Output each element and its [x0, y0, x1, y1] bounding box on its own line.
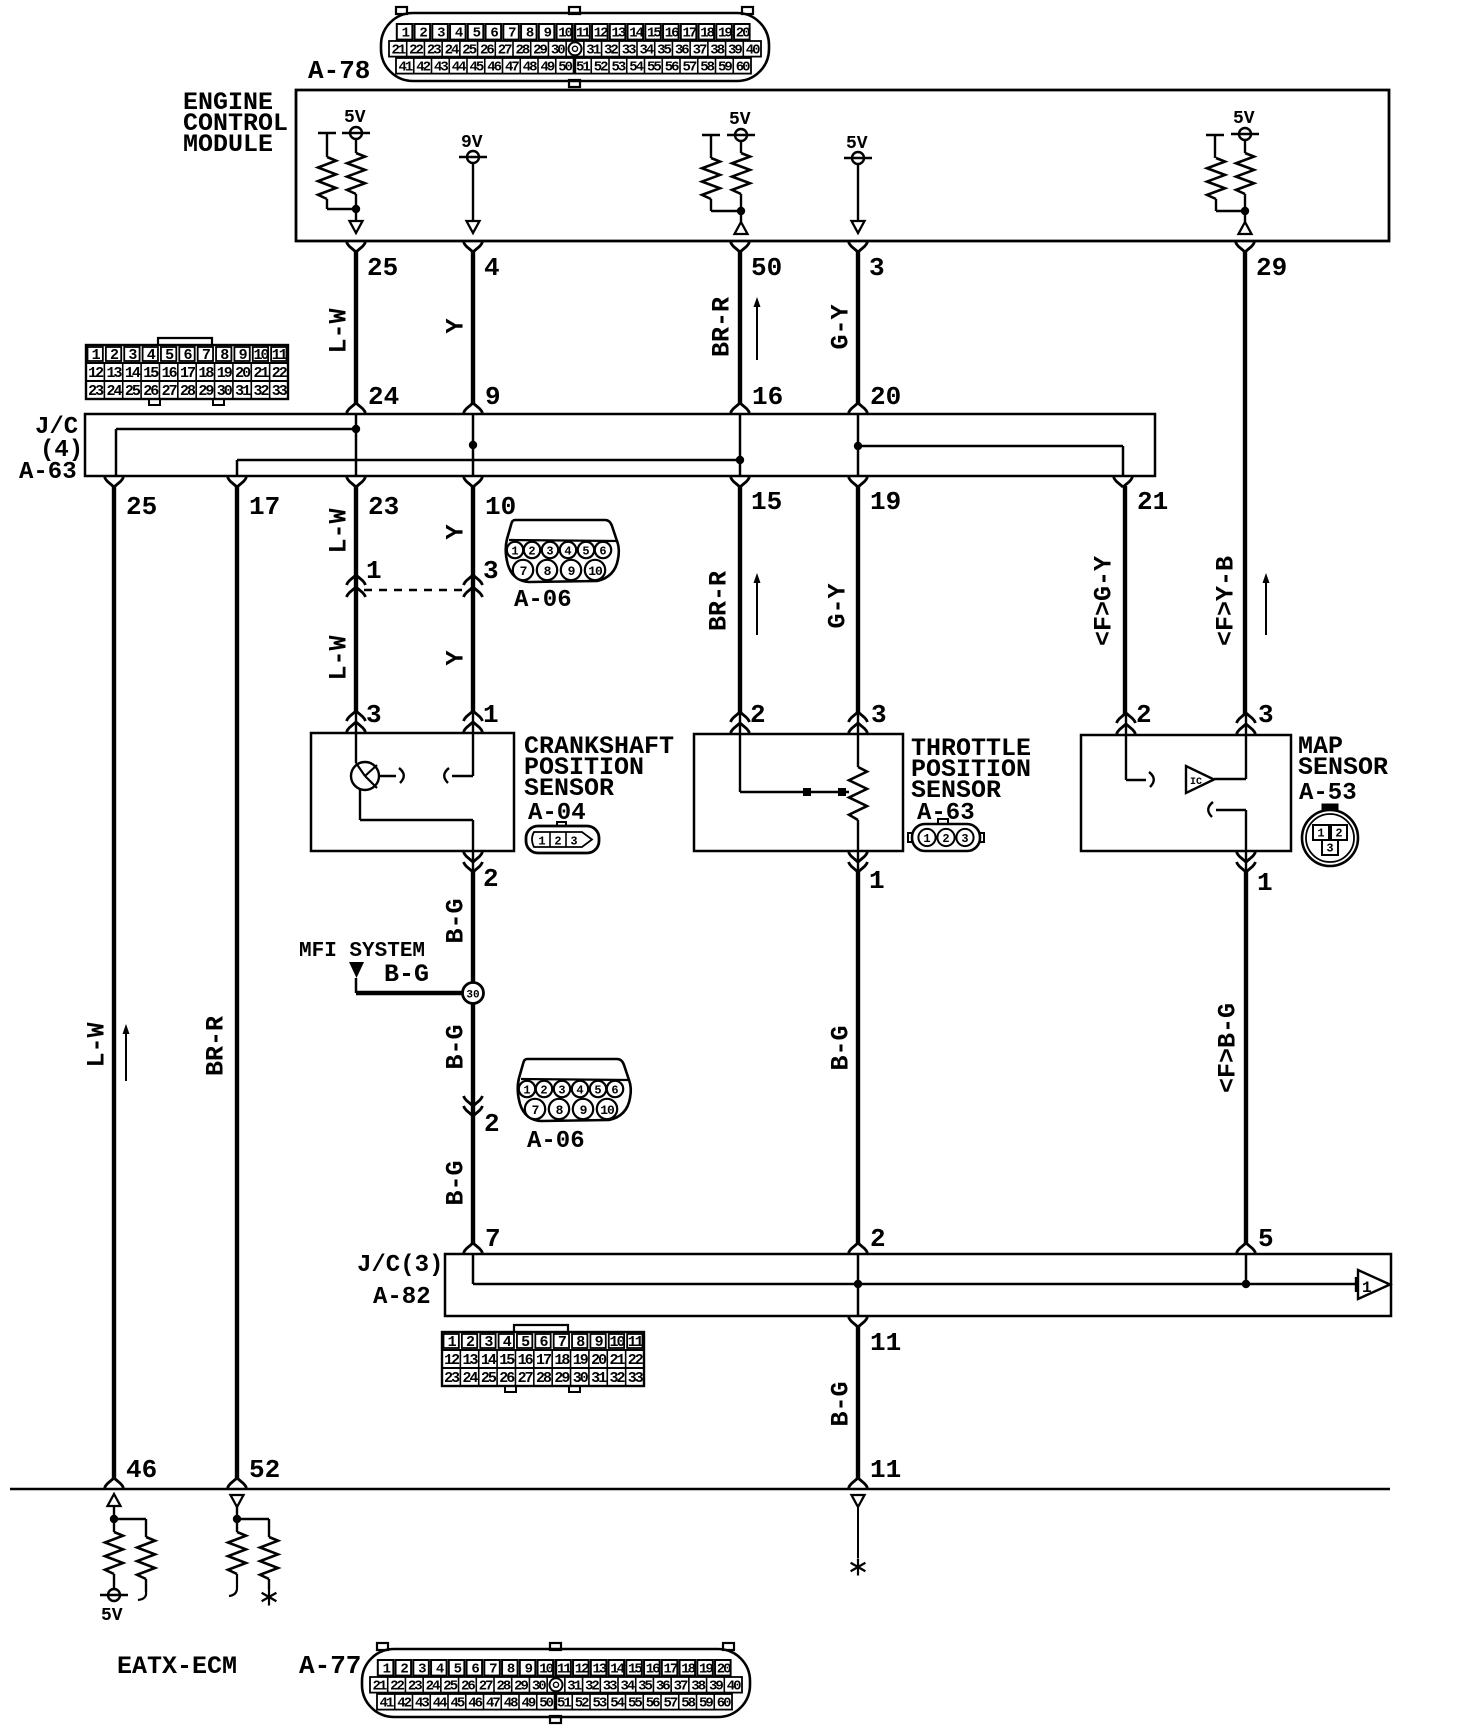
MFI branch wire B-G — [356, 978, 463, 993]
svg-text:34: 34 — [620, 1679, 634, 1695]
svg-text:53: 53 — [592, 1696, 606, 1712]
svg-text:3: 3 — [483, 556, 499, 586]
svg-text:18: 18 — [700, 26, 714, 42]
svg-text:17: 17 — [682, 26, 696, 42]
svg-text:47: 47 — [486, 1696, 500, 1712]
MAP entry pin 2 connector forks — [1117, 713, 1136, 735]
svg-text:9V: 9V — [461, 133, 483, 153]
svg-text:35: 35 — [638, 1679, 652, 1695]
svg-text:51: 51 — [557, 1696, 571, 1712]
svg-text:22: 22 — [409, 43, 423, 59]
wire ECM pin25 resistor bottoms — [327, 194, 356, 221]
JC3 entry fork pin 5 — [1237, 1243, 1256, 1253]
svg-text:58: 58 — [681, 1696, 695, 1712]
connector A-53 icon — [1302, 804, 1358, 866]
label J/C (4) A-63 — [19, 414, 83, 486]
svg-text:13: 13 — [592, 1662, 606, 1678]
svg-text:28: 28 — [536, 1370, 552, 1387]
svg-text:16: 16 — [752, 382, 783, 412]
svg-text:3: 3 — [546, 545, 553, 559]
svg-text:36: 36 — [656, 1679, 670, 1695]
connector A-63 33-pin (junction block) — [86, 338, 288, 405]
svg-text:37: 37 — [693, 43, 707, 59]
crank sensor arm with terminal hook — [379, 768, 404, 783]
svg-text:17: 17 — [536, 1352, 551, 1369]
EATX pin52 branch wire — [237, 1519, 269, 1537]
svg-text:A-06: A-06 — [514, 587, 572, 614]
svg-text:27: 27 — [498, 43, 512, 59]
current arrow ((F)Y-B) — [1265, 581, 1267, 635]
wire G-Y (JC4-19 to throttle pin3) — [856, 486, 860, 714]
throttle entry pin 2 connector forks — [731, 712, 750, 734]
terminal triangle ECM pin4 (open, down) — [467, 221, 480, 233]
wire BR-R long (JC4-17 to EATX-52) — [235, 486, 239, 1480]
MAP entry pin 3 connector forks — [1237, 713, 1256, 735]
svg-text:7: 7 — [532, 1103, 539, 1118]
junction box J/C(3) — [445, 1254, 1391, 1316]
svg-text:2: 2 — [483, 864, 499, 894]
svg-text:J/C(3): J/C(3) — [357, 1252, 443, 1279]
ECM internal 5V supply circle (pin25 group) — [342, 108, 370, 139]
svg-text:1: 1 — [538, 835, 545, 849]
svg-text:2: 2 — [1136, 700, 1152, 730]
svg-text:26: 26 — [461, 1679, 475, 1695]
svg-text:44: 44 — [452, 60, 466, 76]
svg-text:11: 11 — [272, 347, 288, 364]
svg-text:15: 15 — [647, 26, 661, 42]
svg-text:21: 21 — [1137, 487, 1168, 517]
JC3 entry fork pin 2 — [849, 1243, 868, 1253]
svg-text:17: 17 — [663, 1662, 677, 1678]
svg-text:1: 1 — [483, 700, 499, 730]
svg-text:A-63: A-63 — [19, 459, 77, 486]
svg-text:BR-R: BR-R — [708, 297, 737, 357]
svg-text:60: 60 — [717, 1696, 731, 1712]
svg-text:3: 3 — [869, 253, 885, 283]
svg-text:56: 56 — [646, 1696, 660, 1712]
connector A-77 (EATX 60-pin) — [362, 1643, 750, 1723]
svg-text:14: 14 — [125, 365, 141, 382]
svg-text:8: 8 — [556, 1103, 564, 1118]
svg-text:10: 10 — [558, 26, 572, 42]
svg-text:33: 33 — [622, 43, 636, 59]
svg-text:A-06: A-06 — [527, 1128, 585, 1155]
svg-text:4: 4 — [564, 545, 571, 559]
svg-text:7: 7 — [520, 564, 527, 579]
svg-text:55: 55 — [628, 1696, 642, 1712]
svg-text:5V: 5V — [729, 110, 751, 130]
svg-text:34: 34 — [639, 43, 653, 59]
svg-text:32: 32 — [609, 1370, 625, 1387]
svg-text:2: 2 — [750, 700, 766, 730]
svg-text:18: 18 — [554, 1352, 570, 1369]
crank sensor exit pin 2 connector forks — [464, 851, 483, 872]
svg-text:46: 46 — [468, 1696, 482, 1712]
svg-text:11: 11 — [557, 1662, 571, 1678]
svg-text:29: 29 — [514, 1679, 528, 1695]
svg-text:11: 11 — [870, 1328, 901, 1358]
A-06 pin1 fork on L-W wire — [347, 575, 366, 597]
node dot ECM pin50 — [737, 207, 745, 215]
svg-text:2: 2 — [540, 1084, 547, 1098]
svg-text:10: 10 — [485, 492, 516, 522]
MAP internal pin3 wire to IC — [1214, 735, 1246, 779]
resistor R-j (EATX pin52 right) — [260, 1537, 278, 1589]
JC4 internal bus C (pin16 to pin17) — [237, 460, 740, 476]
svg-text:L-W: L-W — [325, 508, 354, 553]
wire L-W (ECM25 to JC4-24) — [354, 251, 358, 405]
svg-text:B-G: B-G — [442, 898, 471, 943]
crankshaft position sensor box A-04 — [311, 733, 514, 851]
JC4 pass-through wire 16-15 — [739, 414, 742, 476]
inline connector A-06 pins 1-3 dashed link — [364, 589, 465, 592]
svg-text:22: 22 — [628, 1352, 644, 1369]
svg-text:21: 21 — [391, 43, 405, 59]
svg-text:46: 46 — [487, 60, 501, 76]
svg-text:3: 3 — [871, 700, 887, 730]
svg-text:10: 10 — [600, 1103, 615, 1118]
svg-text:<F>B-G: <F>B-G — [1214, 1003, 1243, 1093]
svg-text:49: 49 — [521, 1696, 535, 1712]
connector A-78 (ECM 60-pin) — [381, 7, 769, 87]
svg-text:59: 59 — [718, 60, 732, 76]
svg-text:24: 24 — [463, 1370, 479, 1387]
svg-text:60: 60 — [736, 60, 750, 76]
svg-text:43: 43 — [434, 60, 448, 76]
EATX pin52 node dot — [233, 1507, 241, 1523]
svg-text:52: 52 — [249, 1455, 280, 1485]
svg-text:Y: Y — [442, 318, 471, 333]
svg-text:3: 3 — [570, 835, 577, 849]
resistor R-c (ECM pin50 left) — [702, 158, 720, 199]
svg-text:38: 38 — [691, 1679, 705, 1695]
svg-text:25: 25 — [481, 1370, 497, 1387]
connector A-06 icon (lower) — [518, 1059, 631, 1121]
svg-text:7: 7 — [485, 1224, 501, 1254]
ECM pin 29 exit fork — [1236, 242, 1255, 252]
svg-text:2: 2 — [528, 545, 535, 559]
svg-text:G-Y: G-Y — [824, 583, 853, 628]
JC3 pin5 internal stub — [1245, 1254, 1248, 1284]
JC3 pass-through wire 2-11 — [857, 1254, 860, 1316]
resistor R-a (ECM pin25 left) — [318, 157, 336, 199]
ground star (EATX pin11) — [857, 1559, 859, 1576]
label CRANKSHAFT POSITION SENSOR — [524, 732, 674, 803]
svg-text:BR-R: BR-R — [202, 1016, 231, 1076]
svg-text:30: 30 — [532, 1679, 546, 1695]
svg-text:5V: 5V — [1233, 109, 1255, 129]
svg-text:12: 12 — [575, 1662, 589, 1678]
svg-text:28: 28 — [496, 1679, 510, 1695]
svg-text:20: 20 — [235, 365, 251, 382]
svg-text:50: 50 — [539, 1696, 553, 1712]
JC4 exit fork pin 23 — [347, 477, 366, 487]
connector A-06 icon (upper) — [506, 520, 619, 582]
svg-text:A-53: A-53 — [1299, 780, 1357, 807]
svg-text:18: 18 — [198, 365, 214, 382]
JC4 entry fork pin 16 — [731, 403, 750, 413]
current arrow (top BR-R) — [756, 305, 758, 360]
svg-text:19: 19 — [870, 487, 901, 517]
svg-text:51: 51 — [576, 60, 590, 76]
svg-text:33: 33 — [272, 383, 288, 400]
svg-text:12: 12 — [88, 365, 104, 382]
svg-text:6: 6 — [599, 545, 606, 559]
EATX pin46 branch wire — [114, 1519, 146, 1537]
JC4 pass-through wire 24-23 — [355, 414, 358, 476]
JC3 exit fork pin 11 — [849, 1317, 868, 1327]
svg-text:52: 52 — [594, 60, 608, 76]
svg-text:36: 36 — [675, 43, 689, 59]
svg-text:31: 31 — [586, 43, 600, 59]
svg-text:21: 21 — [372, 1679, 386, 1695]
resistor R-e (ECM pin29 left) — [1207, 158, 1225, 199]
svg-text:16: 16 — [646, 1662, 660, 1678]
svg-text:57: 57 — [663, 1696, 677, 1712]
JC4 pass-through wire 9-10 — [472, 414, 475, 476]
svg-text:19: 19 — [699, 1662, 713, 1678]
svg-text:46: 46 — [126, 1455, 157, 1485]
svg-text:25: 25 — [125, 383, 141, 400]
svg-text:B-G: B-G — [442, 1160, 471, 1205]
crank sensor pin1 arm with terminal hook — [444, 733, 473, 783]
current arrow (L-W long) — [125, 1032, 127, 1081]
svg-text:27: 27 — [162, 383, 177, 400]
svg-text:13: 13 — [611, 26, 625, 42]
svg-text:55: 55 — [647, 60, 661, 76]
svg-text:31: 31 — [591, 1370, 607, 1387]
svg-text:15: 15 — [751, 487, 782, 517]
svg-text:21: 21 — [609, 1352, 625, 1369]
svg-text:44: 44 — [433, 1696, 447, 1712]
EATX-ECM boundary rail — [10, 1488, 1390, 1491]
svg-text:EATX-ECM: EATX-ECM — [117, 1652, 237, 1681]
svg-text:B-G: B-G — [827, 1381, 856, 1426]
svg-text:33: 33 — [603, 1679, 617, 1695]
svg-text:15: 15 — [143, 365, 159, 382]
wire B-G (throttle pin1 to JC3-2) — [856, 872, 860, 1245]
svg-text:54: 54 — [610, 1696, 624, 1712]
ECM internal 5V supply circle (pin29 group) — [1231, 109, 1259, 140]
svg-text:3: 3 — [1258, 700, 1274, 730]
crank sensor internal return wire — [360, 788, 473, 851]
svg-text:49: 49 — [540, 60, 554, 76]
svg-text:19: 19 — [573, 1352, 589, 1369]
svg-text:1: 1 — [511, 545, 518, 559]
ECM pin 4 exit fork — [464, 242, 483, 252]
svg-text:20: 20 — [717, 1662, 731, 1678]
wire BR-R (JC4-15 to throttle pin2) — [738, 486, 742, 714]
JC4 junction dot on Y wire — [469, 441, 477, 449]
svg-text:14: 14 — [481, 1352, 497, 1369]
EATX pin11 terminal triangle (open, down) — [852, 1495, 865, 1507]
svg-text:3: 3 — [366, 700, 382, 730]
svg-text:SENSOR: SENSOR — [524, 774, 614, 803]
wire ECM pin29 resistor bottoms — [1216, 194, 1245, 222]
svg-text:3: 3 — [1326, 842, 1333, 856]
svg-text:A-78: A-78 — [308, 56, 370, 86]
svg-text:10: 10 — [539, 1662, 553, 1678]
svg-text:14: 14 — [629, 26, 643, 42]
svg-text:13: 13 — [463, 1352, 479, 1369]
svg-text:50: 50 — [751, 253, 782, 283]
ECM internal stub bracket (pin29 group) — [1206, 135, 1224, 158]
EATX pin46 node dot — [110, 1506, 118, 1523]
svg-text:G-Y: G-Y — [827, 304, 856, 349]
svg-text:29: 29 — [554, 1370, 570, 1387]
A-06 pin3 fork on Y wire — [464, 575, 483, 597]
JC4 internal bus D (pin20 to pin21) — [858, 446, 1123, 476]
svg-text:15: 15 — [499, 1352, 515, 1369]
MAP internal output arm with hook — [1208, 802, 1246, 851]
svg-text:16: 16 — [518, 1352, 534, 1369]
svg-text:45: 45 — [450, 1696, 464, 1712]
svg-text:17: 17 — [180, 365, 195, 382]
svg-text:4: 4 — [576, 1084, 583, 1098]
JC4 exit fork pin 25 — [105, 477, 124, 487]
svg-text:39: 39 — [709, 1679, 723, 1695]
svg-text:35: 35 — [657, 43, 671, 59]
svg-text:B-G: B-G — [384, 960, 429, 989]
svg-text:29: 29 — [198, 383, 214, 400]
svg-text:32: 32 — [585, 1679, 599, 1695]
throttle entry pin 3 connector forks — [849, 712, 868, 734]
svg-text:25: 25 — [367, 253, 398, 283]
svg-text:22: 22 — [390, 1679, 404, 1695]
JC4 exit fork pin 17 — [228, 477, 247, 487]
current arrow (mid BR-R) — [756, 581, 758, 635]
svg-text:16: 16 — [665, 26, 679, 42]
resistor R-d (ECM pin50 right) — [732, 141, 750, 194]
throttle potentiometer wiper — [740, 734, 849, 796]
svg-text:13: 13 — [107, 365, 123, 382]
JC3 internal bus — [473, 1254, 1358, 1284]
svg-text:5: 5 — [594, 1084, 601, 1098]
svg-text:11: 11 — [628, 1334, 644, 1351]
svg-text:32: 32 — [253, 383, 269, 400]
JC4 bus A junction dot — [352, 425, 360, 433]
terminal triangle ECM pin29 (open, up) — [1239, 222, 1252, 234]
svg-text:33: 33 — [628, 1370, 644, 1387]
svg-text:24: 24 — [445, 43, 459, 59]
svg-text:31: 31 — [567, 1679, 581, 1695]
svg-text:24: 24 — [426, 1679, 440, 1695]
resistor R-f (ECM pin29 right) — [1236, 140, 1254, 194]
svg-text:4: 4 — [484, 253, 500, 283]
wire BR-R (ECM50 to JC4-16) — [738, 251, 742, 405]
svg-text:48: 48 — [504, 1696, 518, 1712]
svg-text:26: 26 — [143, 383, 159, 400]
svg-text:A-77: A-77 — [299, 1651, 361, 1681]
label THROTTLE POSITION SENSOR — [911, 734, 1031, 805]
JC3 bus output arrow to other page — [1356, 1270, 1390, 1299]
svg-text:BR-R: BR-R — [705, 571, 734, 631]
svg-text:40: 40 — [746, 43, 760, 59]
svg-text:23: 23 — [408, 1679, 422, 1695]
JC4 entry fork pin 9 — [464, 403, 483, 413]
wire (F)G-Y (JC4-21 to MAP pin2) — [1123, 486, 1127, 715]
svg-text:30: 30 — [466, 990, 479, 1002]
svg-text:25: 25 — [126, 492, 157, 522]
JC4 exit fork pin 21 — [1114, 477, 1133, 487]
splice node 30 — [463, 983, 484, 1004]
svg-text:3: 3 — [961, 832, 968, 846]
label J/C(3) A-82 — [357, 1252, 443, 1311]
svg-text:42: 42 — [397, 1696, 411, 1712]
wire L-W (JC4-23 to crank pin3) — [354, 486, 358, 713]
throttle position sensor box A-63 — [694, 734, 903, 851]
JC4 exit fork pin 10 — [464, 477, 483, 487]
JC3 bus junction dot at pin5 — [1242, 1280, 1250, 1288]
JC4 bus C junction dot — [736, 456, 744, 464]
svg-text:20: 20 — [736, 26, 750, 42]
svg-text:5: 5 — [582, 545, 589, 559]
svg-text:57: 57 — [682, 60, 696, 76]
JC4 entry fork pin 24 — [347, 403, 366, 413]
svg-text:9: 9 — [568, 564, 576, 579]
svg-text:29: 29 — [533, 43, 547, 59]
label MAP SENSOR — [1298, 732, 1388, 782]
svg-text:10: 10 — [588, 564, 603, 579]
connector A-04 icon — [526, 822, 599, 853]
svg-text:10: 10 — [609, 1334, 625, 1351]
svg-text:41: 41 — [398, 60, 412, 76]
JC4 entry fork pin 20 — [849, 403, 868, 413]
svg-text:21: 21 — [253, 365, 269, 382]
svg-text:B-G: B-G — [827, 1025, 856, 1070]
svg-text:42: 42 — [416, 60, 430, 76]
svg-text:26: 26 — [480, 43, 494, 59]
svg-text:23: 23 — [427, 43, 441, 59]
svg-text:20: 20 — [591, 1352, 607, 1369]
svg-text:L-W: L-W — [83, 1022, 112, 1067]
svg-text:5V: 5V — [344, 108, 366, 128]
ground star (EATX pin52) — [268, 1589, 270, 1606]
svg-text:<F>Y-B: <F>Y-B — [1212, 556, 1241, 646]
ECM internal stub bracket (pin50 group) — [702, 135, 720, 158]
JC4 exit fork pin 15 — [731, 477, 750, 487]
terminal triangle ECM pin25 (open, down) — [350, 221, 363, 233]
svg-text:18: 18 — [681, 1662, 695, 1678]
svg-text:<F>G-Y: <F>G-Y — [1090, 556, 1119, 646]
ECM internal stub bracket (pin25 group) — [318, 133, 336, 157]
svg-text:11: 11 — [576, 26, 590, 42]
junction box J/C(4) — [85, 414, 1155, 476]
svg-text:3: 3 — [558, 1084, 565, 1098]
connector A-82 33-pin icon — [442, 1325, 644, 1392]
EATX pin52 terminal triangle (open, down) — [231, 1495, 244, 1507]
svg-text:23: 23 — [368, 492, 399, 522]
svg-text:11: 11 — [870, 1455, 901, 1485]
svg-text:9: 9 — [580, 1103, 588, 1118]
MFI branch arrow head — [349, 962, 364, 978]
wire Y (JC4-10 to crank pin1) — [471, 486, 475, 713]
svg-text:52: 52 — [575, 1696, 589, 1712]
EATX pin46 terminal triangle (open, up) — [108, 1494, 121, 1506]
svg-text:43: 43 — [415, 1696, 429, 1712]
crank sensor entry pin 1 connector forks — [464, 711, 483, 733]
svg-text:53: 53 — [611, 60, 625, 76]
svg-text:30: 30 — [217, 383, 233, 400]
svg-text:1: 1 — [1362, 1279, 1372, 1297]
svg-text:22: 22 — [272, 365, 288, 382]
svg-text:9: 9 — [485, 382, 501, 412]
ECM pin 3 exit fork — [849, 242, 868, 252]
svg-text:38: 38 — [710, 43, 724, 59]
svg-text:39: 39 — [728, 43, 742, 59]
EATX pin 11 entry fork — [849, 1478, 868, 1488]
svg-text:30: 30 — [573, 1370, 589, 1387]
